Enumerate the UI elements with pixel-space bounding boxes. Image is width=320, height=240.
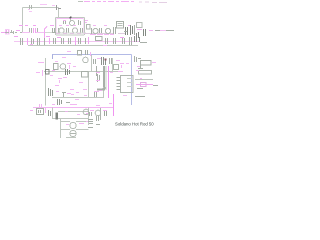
svg-text:Soldano Hot Rod 50: Soldano Hot Rod 50 [115,122,154,127]
